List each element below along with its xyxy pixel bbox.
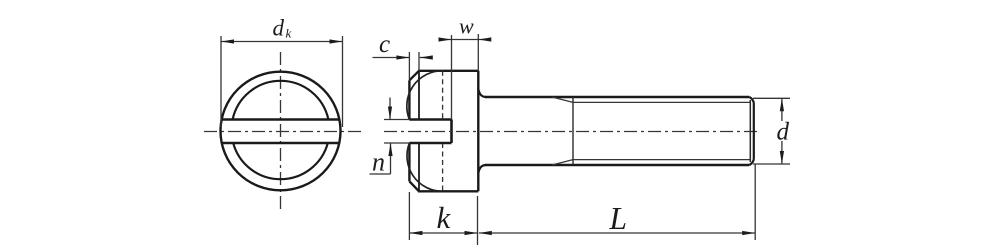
- side view centerline: [384, 131, 761, 133]
- n leader underline: [370, 173, 391, 175]
- k / L shared extension: [477, 196, 479, 245]
- svg-text:k: k: [437, 200, 452, 235]
- thread runout diagonal bottom: [552, 160, 573, 165]
- k left arrowhead: [409, 231, 422, 235]
- head tangent line upper: [418, 71, 420, 120]
- head tangent line lower: [418, 143, 420, 191]
- w left arrowhead: [439, 37, 452, 41]
- full thread boundary line: [572, 97, 574, 165]
- dk dimension line: [221, 41, 343, 43]
- c extension left: [408, 52, 410, 80]
- slot band bottom line (front view): [222, 142, 340, 145]
- svg-text:d: d: [777, 119, 790, 146]
- head bottom chamfer: [409, 181, 419, 191]
- head left face upper (side view): [408, 80, 410, 119]
- n lower arrow shaft: [390, 143, 392, 174]
- dk extension line left: [220, 36, 222, 127]
- d extension bottom: [753, 163, 790, 165]
- front view vertical centerline: [280, 52, 282, 212]
- head left face lower (side view): [408, 143, 410, 181]
- head bottom edge: [418, 190, 478, 192]
- w extension line left (slot floor extended): [451, 35, 453, 120]
- head crown arc lower: [407, 143, 442, 191]
- thread runout diagonal top: [552, 97, 573, 102]
- shank top fillet: [478, 89, 486, 98]
- k dimension line: [409, 232, 477, 234]
- screw end face: [753, 103, 755, 160]
- svg-text:n: n: [372, 148, 385, 177]
- svg-text:k: k: [286, 26, 292, 41]
- slot top extension for n: [384, 119, 409, 121]
- slot band top line (front view): [222, 118, 340, 121]
- front view horizontal centerline: [204, 131, 361, 133]
- d dimension line upper: [781, 98, 783, 121]
- head crown arc upper: [407, 71, 442, 120]
- svg-text:L: L: [609, 201, 628, 236]
- k right arrowhead: [465, 231, 478, 235]
- w dimension line: [439, 39, 491, 41]
- dk right arrowhead: [330, 39, 343, 43]
- n upper arrow shaft: [389, 98, 391, 120]
- d top arrowhead: [780, 98, 784, 111]
- slot top line (side view): [409, 118, 451, 121]
- svg-text:d: d: [273, 16, 285, 41]
- dk left arrowhead: [221, 39, 234, 43]
- hidden slot depth line lower: [442, 143, 444, 191]
- c right arrowhead: [420, 55, 433, 59]
- L dimension line: [479, 232, 755, 234]
- svg-text:c: c: [379, 31, 390, 58]
- k extension left: [408, 192, 410, 240]
- chamfer start edge: [749, 100, 751, 162]
- slot floor line: [450, 120, 453, 144]
- d bottom arrowhead: [780, 151, 784, 164]
- end chamfer bottom: [749, 160, 754, 166]
- c left arrowhead: [396, 55, 409, 59]
- c extension right: [418, 52, 420, 71]
- head inner circle bottom arc (front view): [233, 143, 328, 179]
- head top chamfer: [409, 71, 419, 81]
- shank / thread crest bottom line: [485, 164, 749, 166]
- dk extension line right: [342, 36, 344, 127]
- hidden slot depth line upper: [442, 71, 444, 120]
- head right face: [477, 71, 479, 192]
- d dimension line lower: [781, 141, 783, 164]
- L right extension: [754, 164, 756, 240]
- n lower arrowhead: [388, 143, 392, 156]
- c leader line: [373, 57, 410, 59]
- shank bottom fillet: [478, 165, 486, 174]
- svg-text:w: w: [459, 14, 474, 39]
- head outer circle (front view): [221, 72, 341, 191]
- slot bottom line (side view): [409, 142, 451, 145]
- shank / thread crest top line: [485, 96, 749, 98]
- w right arrowhead: [478, 37, 491, 41]
- c right arrow line: [420, 57, 432, 59]
- L left arrowhead: [479, 231, 492, 235]
- n upper arrowhead: [388, 107, 392, 120]
- end chamfer top: [749, 97, 754, 103]
- thread root bottom line: [573, 159, 750, 161]
- d extension top: [753, 97, 790, 99]
- thread root top line: [573, 101, 750, 103]
- head top edge: [418, 70, 478, 72]
- w extension line right: [477, 34, 479, 71]
- head inner circle top arc (front view): [233, 81, 329, 120]
- L right arrowhead: [742, 231, 755, 235]
- slot bottom extension for n: [384, 142, 409, 144]
